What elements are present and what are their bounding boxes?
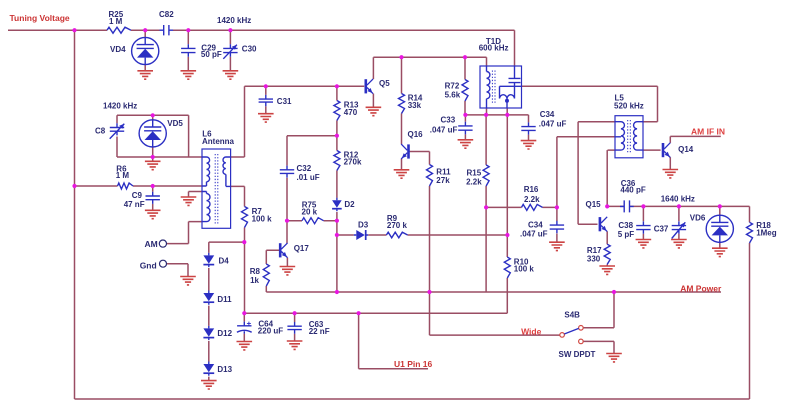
svg-text:270 k: 270 k [387,221,408,230]
svg-text:1Meg: 1Meg [756,229,777,238]
svg-text:1420 kHz: 1420 kHz [103,102,137,111]
svg-text:C34: C34 [540,110,555,119]
svg-text:C31: C31 [277,97,292,106]
svg-text:C9: C9 [132,191,143,200]
svg-text:D11: D11 [217,295,232,304]
svg-text:270k: 270k [344,158,362,167]
svg-text:C38: C38 [618,221,633,230]
svg-text:520 kHz: 520 kHz [614,102,644,111]
svg-text:2.2k: 2.2k [466,177,482,186]
svg-text:220 uF: 220 uF [258,327,283,336]
svg-text:Tuning Voltage: Tuning Voltage [10,13,70,23]
svg-text:100 k: 100 k [514,265,535,274]
svg-text:Q5: Q5 [379,79,390,88]
svg-text:.047 uF: .047 uF [539,120,567,129]
svg-text:27k: 27k [436,176,450,185]
svg-text:Q17: Q17 [294,244,310,253]
svg-text:440 pF: 440 pF [620,186,645,195]
svg-text:C32: C32 [297,164,312,173]
svg-text:R16: R16 [524,185,539,194]
svg-text:Antenna: Antenna [202,137,235,146]
svg-text:C33: C33 [441,116,456,125]
svg-text:20 k: 20 k [302,207,318,216]
svg-text:1640 kHz: 1640 kHz [661,195,695,204]
svg-text:Q14: Q14 [678,145,694,154]
svg-text:600 kHz: 600 kHz [479,44,509,53]
svg-text:D13: D13 [217,365,232,374]
svg-text:Gnd: Gnd [140,261,157,271]
svg-text:D12: D12 [217,329,232,338]
svg-text:1420 kHz: 1420 kHz [217,16,251,25]
svg-text:AM Power: AM Power [680,283,722,293]
svg-text:D3: D3 [358,220,369,229]
svg-text:D2: D2 [344,200,355,209]
svg-text:22 nF: 22 nF [309,327,330,336]
svg-text:Q16: Q16 [408,130,424,139]
svg-text:C37: C37 [654,224,669,233]
svg-text:AM: AM [145,239,158,249]
svg-text:VD5: VD5 [167,119,183,128]
svg-text:1 M: 1 M [109,17,123,26]
svg-text:100 k: 100 k [252,214,273,223]
svg-text:R72: R72 [445,82,460,91]
svg-text:AM IF IN: AM IF IN [691,126,725,136]
svg-text:5.6k: 5.6k [445,90,461,99]
svg-text:330: 330 [587,254,601,263]
svg-text:.047 uF: .047 uF [430,125,458,134]
svg-text:C8: C8 [95,126,106,135]
svg-text:33k: 33k [408,101,422,110]
svg-text:U1 Pin 16: U1 Pin 16 [394,359,433,369]
svg-text:S4B: S4B [564,311,580,320]
svg-text:Wide: Wide [521,327,542,337]
svg-text:R8: R8 [250,267,261,276]
svg-text:C82: C82 [159,10,174,19]
svg-text:Q15: Q15 [586,200,602,209]
svg-text:1 M: 1 M [116,171,130,180]
svg-text:50 pF: 50 pF [201,50,222,59]
svg-text:1k: 1k [250,276,259,285]
svg-text:C30: C30 [242,45,257,54]
svg-text:47 nF: 47 nF [124,200,145,209]
svg-text:.047 uF: .047 uF [520,229,548,238]
svg-text:SW DPDT: SW DPDT [559,350,596,359]
svg-text:2.2k: 2.2k [524,195,540,204]
svg-text:470: 470 [344,108,358,117]
svg-text:.01 uF: .01 uF [297,173,320,182]
svg-text:VD4: VD4 [110,45,126,54]
svg-text:D4: D4 [219,257,230,266]
svg-text:VD6: VD6 [690,213,706,222]
svg-text:5 pF: 5 pF [618,230,635,239]
